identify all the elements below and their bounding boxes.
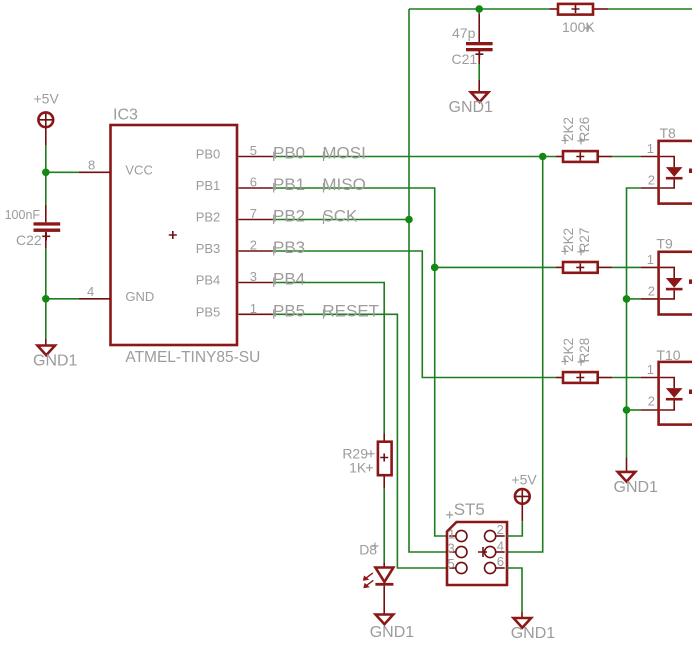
svg-text:PB0: PB0 xyxy=(196,147,221,162)
wire top right of 100K xyxy=(608,8,692,10)
wire net PB2/SCK xyxy=(273,219,410,221)
resistor R28 2K2 xyxy=(556,338,658,383)
node label RESET xyxy=(322,301,379,320)
svg-text:5: 5 xyxy=(250,143,257,158)
svg-text:GND1: GND1 xyxy=(614,479,659,496)
svg-text:GND: GND xyxy=(125,289,154,304)
svg-text:PB3: PB3 xyxy=(273,238,305,257)
pin 7 PB2 xyxy=(239,219,273,221)
ground GND1 under ST5 xyxy=(511,612,556,642)
svg-text:1: 1 xyxy=(250,301,257,316)
resistor R26 2K2 xyxy=(556,117,658,162)
svg-text:PB2: PB2 xyxy=(273,207,305,226)
node label MISO xyxy=(322,175,365,194)
svg-text:IC3: IC3 xyxy=(113,107,138,124)
IC IC3 ATMEL-TINY85-SU xyxy=(111,107,261,367)
wire GND node to IC pin 4 xyxy=(46,298,79,300)
node GND junction xyxy=(42,295,50,303)
ground GND1 under D8 xyxy=(370,615,415,642)
svg-text:MOSI: MOSI xyxy=(322,144,365,163)
svg-text:2: 2 xyxy=(648,173,655,188)
wire T9 pin2 xyxy=(623,295,658,303)
node label SCK xyxy=(322,207,358,226)
svg-text:4: 4 xyxy=(87,284,94,299)
wire ST5 pin6 to ground xyxy=(507,568,522,612)
svg-text:47p: 47p xyxy=(452,25,476,41)
resistor R27 2K2 xyxy=(556,228,658,273)
svg-text:ST5: ST5 xyxy=(454,500,485,519)
svg-text:VCC: VCC xyxy=(125,163,152,178)
ground GND1 under C21 xyxy=(449,92,494,116)
wire T10 pin2 xyxy=(623,406,658,414)
svg-text:T8: T8 xyxy=(660,125,677,141)
svg-text:2: 2 xyxy=(648,283,655,298)
svg-text:GND1: GND1 xyxy=(33,353,78,370)
capacitor C21 47p xyxy=(452,9,493,92)
pin 1 PB5 xyxy=(239,313,273,315)
ground GND1 under C22 xyxy=(33,339,78,370)
node junction dot top C21 xyxy=(475,5,483,13)
wire MISO to R27 row xyxy=(435,266,556,268)
svg-text:100K: 100K xyxy=(562,19,595,35)
svg-text:R26: R26 xyxy=(577,117,592,142)
node label PB1 xyxy=(273,175,305,194)
svg-text:GND1: GND1 xyxy=(449,99,494,116)
svg-text:C22: C22 xyxy=(16,232,42,248)
svg-text:2: 2 xyxy=(250,238,257,253)
optocoupler T8 xyxy=(647,125,692,204)
svg-text:1: 1 xyxy=(647,252,654,267)
svg-text:RESET: RESET xyxy=(322,301,379,320)
svg-text:PB1: PB1 xyxy=(273,175,305,194)
svg-text:100nF: 100nF xyxy=(5,208,41,222)
wire SCK vertical long xyxy=(409,9,447,552)
node label PB5 xyxy=(273,301,305,320)
svg-text:1: 1 xyxy=(647,141,654,156)
optocoupler T9 xyxy=(647,236,692,315)
optocoupler T10 xyxy=(647,347,692,425)
wire R29 to D8 xyxy=(383,489,385,563)
node MISO/R27 junction xyxy=(431,264,439,272)
svg-text:PB2: PB2 xyxy=(196,210,221,225)
svg-text:C21: C21 xyxy=(452,51,478,67)
svg-text:6: 6 xyxy=(250,175,257,190)
pin 8 VCC xyxy=(79,171,111,173)
svg-text:PB5: PB5 xyxy=(273,301,305,320)
wire +5V to ST5 pin2 xyxy=(507,521,522,536)
node PB0 junction xyxy=(539,153,547,161)
svg-text:2K2: 2K2 xyxy=(561,117,576,141)
wire top horizontal xyxy=(409,8,550,10)
svg-text:1: 1 xyxy=(647,362,654,377)
svg-text:3: 3 xyxy=(448,540,455,555)
wire C22 to GND node xyxy=(45,248,47,339)
wire VCC node to IC pin 8 xyxy=(46,171,79,173)
power +5V left xyxy=(34,91,60,146)
svg-text:2K2: 2K2 xyxy=(561,338,576,362)
svg-text:GND1: GND1 xyxy=(511,625,556,642)
svg-text:2K2: 2K2 xyxy=(561,228,576,252)
pin 3 PB4 xyxy=(239,282,273,284)
svg-text:PB4: PB4 xyxy=(273,270,305,289)
pin 4 GND xyxy=(79,298,111,300)
svg-text:T9: T9 xyxy=(656,236,673,252)
pin 6 PB1 xyxy=(239,187,273,189)
capacitor C22 100nF xyxy=(5,205,61,248)
resistor R29 1K xyxy=(342,434,391,489)
svg-text:PB3: PB3 xyxy=(196,241,221,256)
wire net PB0/MOSI xyxy=(273,156,557,158)
svg-text:8: 8 xyxy=(88,157,95,172)
svg-text:6: 6 xyxy=(497,554,504,569)
pin 2 PB3 xyxy=(239,250,273,252)
svg-text:1: 1 xyxy=(448,526,455,541)
power +5V right xyxy=(511,472,537,522)
node VCC junction xyxy=(42,169,50,177)
resistor 100K xyxy=(550,4,609,35)
svg-text:2: 2 xyxy=(497,522,504,537)
connector ST5 xyxy=(446,500,507,585)
node label PB4 xyxy=(273,270,305,289)
wire net PB5/RESET xyxy=(273,314,448,568)
wire net PB4 xyxy=(273,283,385,434)
svg-text:+5V: +5V xyxy=(511,472,537,488)
wire +5V to VCC node vertical xyxy=(45,145,47,205)
svg-text:1K: 1K xyxy=(349,460,367,476)
svg-text:PB4: PB4 xyxy=(196,273,221,288)
svg-text:R27: R27 xyxy=(577,228,592,253)
svg-text:PB0: PB0 xyxy=(273,144,305,163)
node label MOSI xyxy=(322,144,365,163)
svg-text:3: 3 xyxy=(250,269,257,284)
svg-text:ATMEL-TINY85-SU: ATMEL-TINY85-SU xyxy=(125,349,260,366)
node SCK junction xyxy=(405,216,413,224)
LED D8 xyxy=(359,542,393,615)
svg-text:PB1: PB1 xyxy=(196,178,221,193)
node label PB3 xyxy=(273,238,305,257)
svg-text:PB5: PB5 xyxy=(196,304,221,319)
svg-text:SCK: SCK xyxy=(322,207,358,226)
svg-text:R28: R28 xyxy=(577,338,592,363)
wire MOSI vertical to ST5 pin4 xyxy=(507,157,543,553)
svg-text:7: 7 xyxy=(250,206,257,221)
ground GND1 under optos xyxy=(614,458,659,496)
node label PB2 xyxy=(273,207,305,226)
svg-text:5: 5 xyxy=(448,556,455,571)
svg-text:4: 4 xyxy=(497,539,504,554)
wire net PB1/MISO xyxy=(273,188,448,536)
wire T8 pin2 to vertical bus xyxy=(627,188,659,458)
pin 5 PB0 xyxy=(239,156,273,158)
svg-text:2: 2 xyxy=(648,394,655,409)
svg-text:+5V: +5V xyxy=(34,91,60,107)
svg-text:MISO: MISO xyxy=(322,175,365,194)
svg-text:GND1: GND1 xyxy=(370,624,415,641)
wire net PB3 xyxy=(273,251,557,378)
node label PB0 xyxy=(273,144,305,163)
